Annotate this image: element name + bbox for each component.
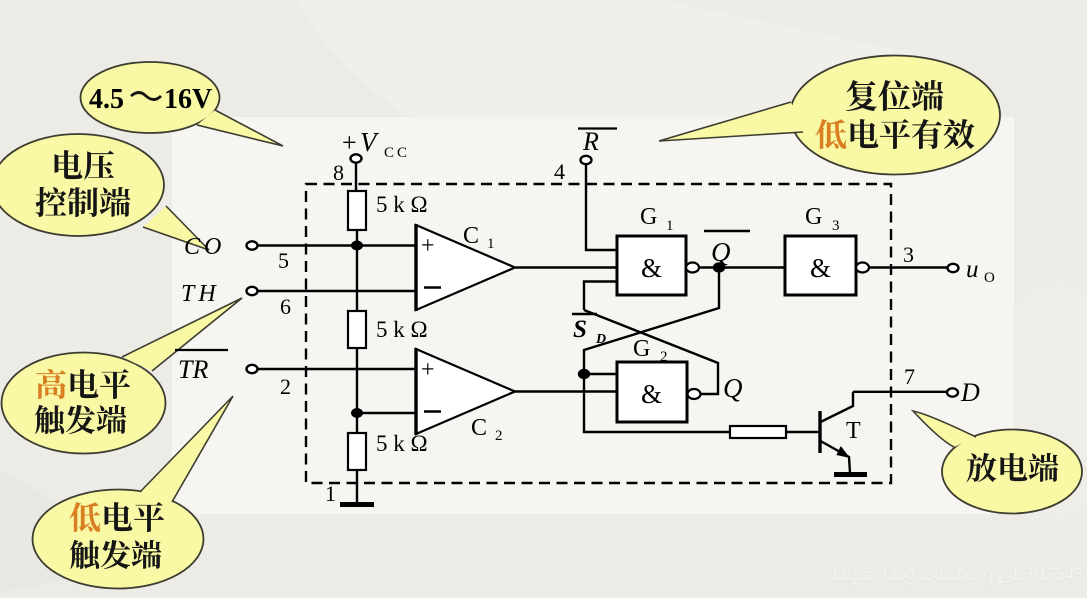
- diagram white panel: [172, 117, 1014, 514]
- callout text 4.5~16V: [89, 84, 212, 115]
- svg-text:6: 6: [280, 294, 291, 319]
- IC dashed boundary box: [306, 184, 891, 483]
- svg-text:D: D: [595, 332, 606, 347]
- wire G1 lower input from Q: [584, 282, 618, 311]
- callout text voltage control: [36, 150, 131, 217]
- base resistor of T: [730, 426, 786, 438]
- callout bubble reset active-low (pin 4): [659, 56, 1000, 175]
- svg-text:1: 1: [666, 218, 674, 234]
- svg-text:4.5: 4.5: [89, 84, 124, 115]
- wire pin2 to C2+: [258, 368, 418, 370]
- svg-text:2: 2: [660, 349, 668, 365]
- svg-text:G: G: [633, 336, 650, 362]
- svg-text:CC: CC: [384, 145, 410, 161]
- svg-text:1: 1: [487, 236, 495, 252]
- svg-text:+: +: [342, 128, 357, 157]
- wire C1 output to G1: [515, 266, 618, 268]
- wire pin6 to C1-: [258, 290, 418, 292]
- svg-text:D: D: [960, 378, 980, 407]
- callout bubble discharge (pin 7): [913, 411, 1082, 514]
- svg-text:&: &: [810, 253, 831, 283]
- svg-text:Q: Q: [711, 237, 731, 267]
- wire C2 output to G2: [515, 390, 618, 392]
- pin 4 reset terminal R-bar: [554, 127, 617, 184]
- svg-text:C: C: [471, 415, 487, 441]
- nand gate G1: [617, 204, 686, 295]
- wire Vcc stem: [355, 163, 357, 192]
- svg-text:u: u: [966, 256, 979, 283]
- wire G1 out to G3: [699, 266, 786, 268]
- wire R1 to R2: [356, 230, 358, 311]
- svg-text:G: G: [640, 204, 657, 230]
- wire pin5 to C1+: [258, 244, 418, 246]
- svg-text:5: 5: [278, 248, 289, 273]
- svg-text:&: &: [641, 379, 662, 409]
- wire node to C2-: [357, 412, 417, 414]
- svg-text:5 k Ω: 5 k Ω: [376, 431, 428, 456]
- svg-text:C: C: [463, 223, 479, 249]
- label Sd-bar: [572, 314, 606, 347]
- svg-text:TH: TH: [181, 281, 220, 307]
- svg-text:+: +: [421, 233, 435, 259]
- pin 2 TR terminal: [175, 350, 291, 399]
- label Qbar: [704, 231, 750, 267]
- op-amp comparator C1: [416, 223, 515, 311]
- pin 5 CO terminal: [184, 234, 289, 273]
- svg-text:2: 2: [495, 428, 503, 444]
- callout text high level trigger: [35, 369, 130, 434]
- pin 3 output terminal: [903, 242, 995, 286]
- callout bubble 4.5-16V supply: [81, 62, 284, 146]
- svg-text:https://blog.csdn.net/qq_17017: https://blog.csdn.net/qq_17017545: [833, 564, 1083, 584]
- callout bubble voltage-control (pin 5): [0, 134, 209, 250]
- svg-text:3: 3: [903, 242, 914, 267]
- svg-text:S: S: [573, 316, 587, 343]
- pin 6 TH terminal: [181, 281, 291, 319]
- nand gate G3: [785, 204, 856, 295]
- wire Qbar down + cross-couple to G2 (diagonal): [584, 268, 730, 433]
- svg-text:T: T: [846, 418, 861, 444]
- svg-text:R: R: [582, 127, 599, 156]
- svg-text:G: G: [805, 204, 822, 230]
- svg-text:3: 3: [832, 218, 840, 234]
- svg-text:&: &: [641, 253, 662, 283]
- callout bubble low-level trigger (pin 2): [33, 396, 234, 589]
- wire pin4 down to G1 input: [586, 164, 618, 250]
- wire R3 to ground: [356, 470, 358, 504]
- svg-text:TR: TR: [178, 355, 208, 384]
- svg-text:2: 2: [280, 374, 291, 399]
- resistor R2 5k: [348, 311, 428, 348]
- resistor R1 5k: [348, 191, 428, 230]
- svg-text:1: 1: [325, 481, 336, 506]
- power terminal +Vcc pin 8: [333, 127, 410, 185]
- svg-text:CO: CO: [184, 234, 225, 260]
- watermark: [833, 564, 1083, 586]
- wire junction to G2 input: [584, 373, 618, 375]
- svg-text:7: 7: [904, 364, 915, 389]
- wire R2 to R3: [356, 348, 358, 433]
- svg-text:5 k Ω: 5 k Ω: [376, 192, 428, 217]
- node G2 upper input junction: [578, 369, 590, 379]
- callout text reset active low: [815, 80, 974, 149]
- callout bubble high-level trigger (pin 6): [2, 298, 243, 454]
- svg-text:O: O: [984, 270, 995, 286]
- callout text low level trigger: [69, 502, 164, 569]
- svg-text:8: 8: [333, 160, 344, 185]
- nand gate G2: [617, 336, 687, 422]
- svg-text:16V: 16V: [164, 84, 212, 115]
- node Qbar junction: [713, 262, 725, 272]
- G2 output bubble: [688, 389, 701, 399]
- wire G3 out to pin3: [869, 266, 947, 268]
- wire collector to pin7: [853, 391, 947, 393]
- op-amp comparator C2: [416, 348, 515, 444]
- ground pin 1: [325, 481, 374, 506]
- G1 output bubble: [686, 263, 699, 273]
- pin 7 discharge terminal: [904, 364, 980, 407]
- G3 output bubble: [856, 263, 869, 273]
- svg-text:Q: Q: [723, 373, 743, 403]
- node junction divider mid-low: [351, 408, 363, 418]
- transistor T: [820, 392, 861, 473]
- wire base resistor to T base: [786, 431, 819, 433]
- transistor emitter ground: [834, 472, 867, 477]
- svg-text:5 k Ω: 5 k Ω: [376, 317, 428, 342]
- svg-text:+: +: [421, 357, 435, 383]
- node junction Vcc divider / CO: [351, 241, 363, 251]
- resistor R3 5k: [348, 431, 428, 470]
- svg-text:4: 4: [554, 159, 565, 184]
- wire cross-couple Q to G1 (diagonal): [584, 310, 718, 394]
- callout text discharge: [967, 453, 1059, 482]
